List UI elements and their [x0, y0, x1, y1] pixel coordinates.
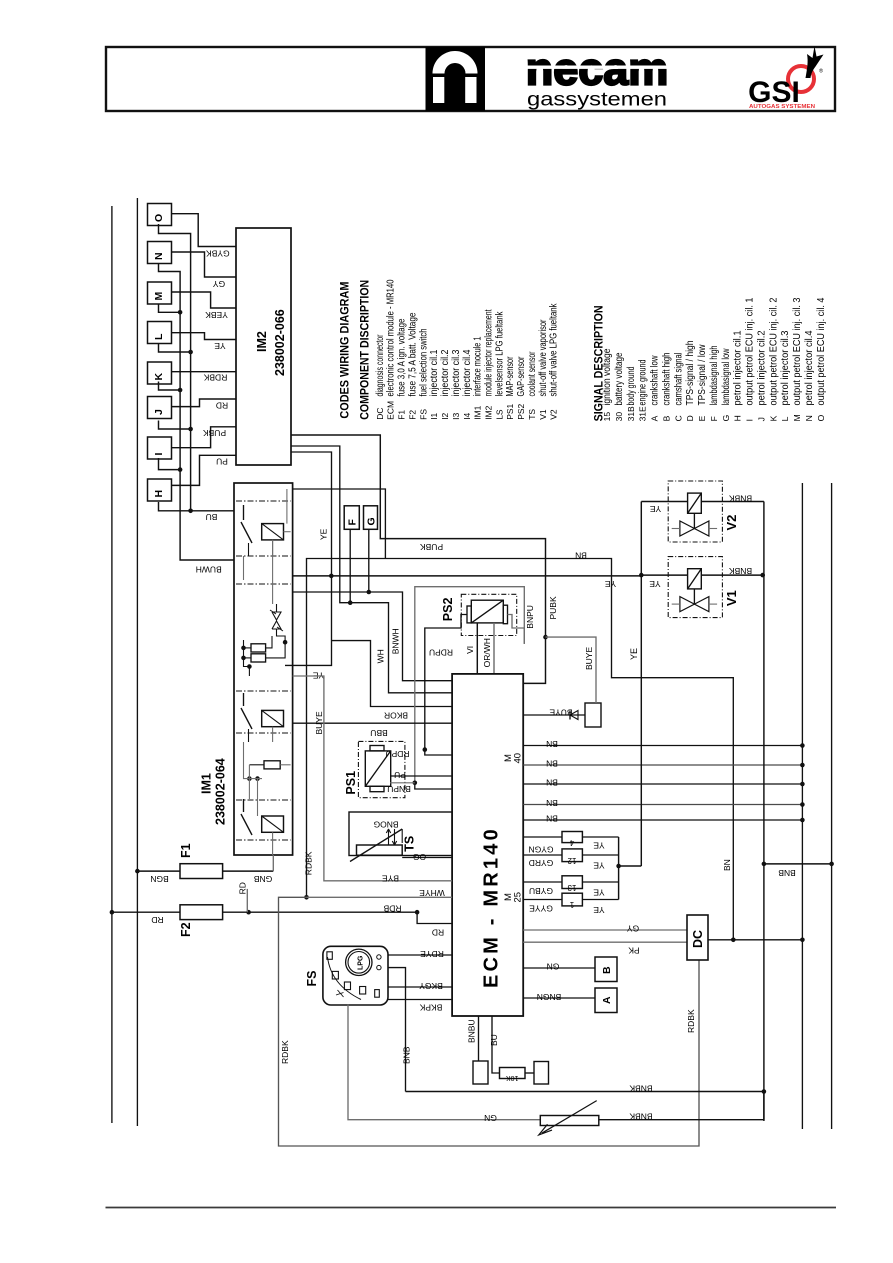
svg-text:GYRD: GYRD	[529, 858, 554, 868]
svg-text:BKGY: BKGY	[419, 981, 443, 991]
svg-text:12: 12	[567, 856, 576, 865]
node bus1-M	[159, 304, 181, 313]
svg-text:petrol injector cil.4: petrol injector cil.4	[804, 330, 815, 405]
svg-text:levelsensor LPG fueltank: levelsensor LPG fueltank	[494, 311, 505, 397]
svg-text:BN: BN	[546, 759, 558, 769]
node PUBK	[543, 635, 548, 640]
pin box 13	[562, 876, 582, 889]
wire YE horizontal	[293, 575, 642, 577]
FS pins	[377, 955, 381, 959]
wire M-IM2 YEBK	[172, 292, 237, 308]
wire PK to DC	[523, 941, 687, 943]
svg-text:fuse 7,5 A batt. Voltage: fuse 7,5 A batt. Voltage	[407, 312, 418, 396]
svg-text:lambdasignal high: lambdasignal high	[709, 346, 720, 406]
wire BBU	[293, 722, 453, 724]
svg-text:O: O	[153, 214, 165, 222]
svg-text:CODES WIRING DIAGRAM: CODES WIRING DIAGRAM	[338, 282, 352, 419]
svg-text:GYYE: GYYE	[529, 904, 553, 914]
svg-text:B: B	[601, 966, 613, 974]
IM1 node stem	[244, 640, 250, 676]
svg-text:YE: YE	[214, 341, 226, 351]
svg-text:coolant sensor: coolant sensor	[527, 351, 538, 396]
svg-text:MAP-sensor: MAP-sensor	[505, 356, 516, 396]
svg-text:15: 15	[602, 412, 612, 422]
bus 1	[159, 263, 235, 560]
connector N	[148, 242, 172, 264]
svg-text:M: M	[153, 292, 165, 301]
connector G	[364, 506, 378, 530]
svg-text:necam: necam	[526, 44, 669, 95]
bus 2	[159, 224, 235, 511]
svg-text:N: N	[153, 252, 165, 260]
wire YE main vertical	[640, 502, 642, 867]
svg-text:BN: BN	[575, 551, 587, 561]
svg-text:ECM - MR140: ECM - MR140	[481, 826, 503, 988]
svg-text:BU: BU	[489, 1034, 499, 1046]
svg-text:K: K	[768, 415, 778, 421]
svg-text:PK: PK	[628, 946, 640, 956]
wire YE to V2	[641, 501, 687, 503]
svg-text:GN: GN	[484, 1113, 497, 1123]
connector O	[148, 204, 172, 226]
svg-text:GY: GY	[627, 924, 640, 934]
box 10K right	[534, 1062, 549, 1085]
node bus1-K	[159, 382, 181, 391]
wire OR/WH	[493, 623, 495, 674]
svg-text:fuel selection switch: fuel selection switch	[418, 329, 429, 397]
wire O-IM2 GYBK	[172, 214, 237, 247]
svg-text:BGN: BGN	[150, 874, 168, 884]
svg-text:gassystemen: gassystemen	[527, 89, 667, 111]
wire H-IM2 PU	[172, 455, 237, 485]
valve V2 body	[680, 521, 695, 536]
svg-text:fuse 3,0 A ign. voltage: fuse 3,0 A ign. voltage	[397, 318, 408, 396]
wire K-IM2 RDBK	[172, 371, 237, 373]
svg-text:YE: YE	[605, 579, 617, 589]
wire BKOR	[332, 641, 453, 707]
svg-text:4: 4	[569, 838, 574, 847]
svg-text:G: G	[721, 415, 731, 422]
IM1 relay 2 switch	[243, 693, 245, 706]
connector L	[148, 322, 172, 344]
svg-text:RD: RD	[238, 882, 248, 894]
svg-text:body ground: body ground	[626, 367, 637, 406]
IM1 resistor r2	[251, 654, 266, 662]
svg-text:injector cil.4: injector cil.4	[462, 349, 473, 396]
svg-text:BN: BN	[546, 814, 558, 824]
svg-text:PUBK: PUBK	[203, 428, 226, 438]
right border line 1	[801, 483, 803, 1129]
wire BNBK vertical	[763, 502, 765, 1122]
wire YE to V1	[641, 574, 687, 576]
svg-text:LS: LS	[494, 409, 504, 420]
svg-text:BNWH: BNWH	[391, 628, 401, 654]
necam logo black square	[426, 47, 486, 111]
svg-text:BKPK: BKPK	[419, 1003, 442, 1013]
interface box K	[585, 703, 601, 727]
wire BKGY	[388, 986, 452, 988]
svg-text:battery voltage: battery voltage	[614, 352, 625, 405]
svg-text:BUYE: BUYE	[584, 647, 594, 670]
svg-text:K: K	[153, 373, 165, 381]
svg-text:ignition voltage: ignition voltage	[602, 348, 613, 405]
svg-text:10K: 10K	[506, 1074, 519, 1081]
svg-text:TPS-signal / high: TPS-signal / high	[685, 341, 696, 406]
pin box 12	[562, 849, 582, 862]
svg-text:L: L	[153, 333, 165, 340]
node bus2-L	[159, 344, 191, 352]
FS LPG dial	[346, 949, 372, 975]
wire RDBK to bottom	[279, 897, 700, 1146]
svg-text:BNB: BNB	[778, 868, 796, 878]
svg-text:TS: TS	[403, 836, 417, 852]
svg-text:BNBU: BNBU	[467, 1019, 477, 1043]
svg-text:YEBK: YEBK	[205, 310, 228, 320]
connector B	[595, 957, 617, 982]
svg-text:GN: GN	[547, 962, 560, 972]
svg-text:I2: I2	[440, 412, 450, 419]
svg-text:VI: VI	[465, 646, 475, 654]
svg-text:engine ground: engine ground	[638, 360, 649, 406]
svg-text:F: F	[347, 519, 359, 526]
connector K	[148, 362, 172, 384]
svg-text:PS1: PS1	[344, 771, 358, 795]
svg-text:interface mocule 1: interface mocule 1	[473, 336, 484, 396]
GSI logo arrow	[806, 46, 824, 78]
wire BNGN to A	[523, 997, 595, 999]
IM1 zener pair	[272, 612, 281, 620]
svg-text:COMPONENT DISCRIPTION: COMPONENT DISCRIPTION	[358, 280, 372, 420]
svg-text:BUWH: BUWH	[196, 565, 222, 575]
IM1 relay 1 coil	[262, 524, 284, 540]
switch FS	[323, 946, 388, 1005]
svg-text:crankshaft low: crankshaft low	[650, 355, 661, 406]
wire BNBK V1	[701, 574, 764, 576]
svg-text:WHYE: WHYE	[419, 888, 445, 898]
svg-text:YE: YE	[593, 888, 605, 898]
FS indicator leds	[327, 952, 332, 960]
necam logo white arch	[433, 51, 478, 74]
svg-text:RDB: RDB	[383, 904, 401, 914]
IM1 relay 3 switch	[243, 799, 245, 812]
svg-text:petrol injector cil.3: petrol injector cil.3	[780, 330, 791, 405]
svg-text:RDBK: RDBK	[304, 851, 314, 875]
wire GY to DC	[523, 929, 687, 931]
svg-text:I4: I4	[462, 412, 472, 419]
svg-text:DC: DC	[691, 930, 705, 948]
wire BNPU to ECM	[415, 783, 452, 789]
svg-text:D: D	[685, 415, 695, 421]
TS arrows	[386, 829, 390, 845]
valve V1 solenoid	[688, 569, 702, 589]
wire BNPU frame	[508, 615, 525, 644]
pin box 4	[562, 832, 582, 843]
svg-text:YE: YE	[593, 905, 605, 915]
wire FS-BNB	[388, 968, 406, 1092]
svg-text:BBU: BBU	[370, 728, 387, 738]
svg-text:BNOG: BNOG	[373, 820, 398, 830]
svg-text:injector cil.2: injector cil.2	[440, 349, 451, 396]
wire BNBK V2	[701, 501, 764, 503]
svg-text:BNBK: BNBK	[629, 1112, 652, 1122]
svg-text:BNPU: BNPU	[525, 605, 535, 629]
svg-text:G: G	[366, 517, 378, 525]
IM1 resistor r1	[251, 644, 266, 652]
svg-text:1: 1	[569, 900, 574, 909]
svg-text:ECM: ECM	[386, 401, 396, 420]
svg-text:J: J	[756, 417, 766, 421]
svg-text:IM2: IM2	[484, 405, 494, 419]
svg-text:®: ®	[819, 68, 823, 75]
wires BN x5	[523, 745, 802, 747]
svg-text:40: 40	[513, 753, 524, 764]
wire BNBK lower	[406, 1091, 764, 1093]
wire DC right	[708, 939, 802, 941]
svg-text:BN: BN	[722, 859, 732, 871]
wire WH from IM2	[291, 446, 452, 693]
connector J	[148, 397, 172, 419]
node bus2-H	[159, 502, 191, 511]
svg-text:V1: V1	[724, 590, 739, 606]
pin bus YE	[618, 837, 620, 900]
svg-text:LPG: LPG	[358, 955, 365, 970]
svg-text:RDPU: RDPU	[385, 749, 409, 759]
wire RDBK mid vertical	[306, 896, 308, 898]
wire BNB	[764, 863, 832, 865]
svg-text:25: 25	[513, 892, 524, 903]
svg-text:TPS-signal / low: TPS-signal / low	[697, 344, 708, 406]
wire BUYE-BYE	[293, 676, 453, 881]
svg-text:V1: V1	[538, 409, 548, 420]
wire PU	[391, 775, 452, 777]
svg-text:RDBK: RDBK	[686, 1009, 696, 1033]
sensor TS	[349, 812, 452, 856]
svg-text:PU: PU	[394, 770, 406, 780]
svg-text:PS2: PS2	[516, 403, 526, 419]
svg-text:output petrol ECU inj. cil. 1: output petrol ECU inj. cil. 1	[745, 297, 756, 405]
connector A	[595, 988, 617, 1013]
wire L-IM2 YE	[172, 333, 237, 340]
svg-text:238002-066: 238002-066	[273, 309, 287, 376]
svg-text:RD: RD	[216, 401, 228, 411]
connector M	[148, 282, 172, 304]
svg-text:GAP-sensor: GAP-sensor	[516, 356, 527, 396]
right border line 2	[831, 483, 833, 1129]
wire F down	[349, 529, 351, 602]
svg-text:GNB: GNB	[253, 874, 272, 884]
IM1 relay 1 switch	[243, 505, 245, 520]
valve V2 box	[668, 481, 722, 542]
pin box 1	[562, 893, 582, 906]
svg-text:F1: F1	[397, 410, 407, 420]
svg-text:I3: I3	[451, 412, 461, 419]
left border line 2	[136, 198, 138, 1126]
svg-text:YE: YE	[593, 841, 605, 851]
wire WHYE	[307, 896, 453, 898]
valve V2 solenoid	[688, 493, 702, 513]
svg-text:RDPU: RDPU	[429, 648, 453, 658]
wire GN to LS	[348, 1005, 540, 1120]
sensor PS1	[358, 741, 405, 797]
svg-text:F2: F2	[407, 410, 417, 420]
sensor PS2	[461, 594, 516, 635]
svg-text:BUYE: BUYE	[314, 711, 324, 734]
svg-text:camshaft signal: camshaft signal	[673, 353, 684, 406]
svg-text:FS: FS	[305, 971, 319, 987]
wire BN upper	[307, 559, 734, 940]
FS arc	[328, 957, 362, 1000]
wire BNBK from LS	[599, 1119, 764, 1121]
svg-text:L: L	[780, 416, 790, 421]
IM1 relay 1 wiring	[284, 531, 291, 533]
module ECM MR140	[452, 674, 523, 1016]
svg-text:RDBK: RDBK	[203, 372, 227, 382]
svg-text:GYBK: GYBK	[206, 249, 230, 259]
header frame	[106, 47, 835, 111]
wire BU	[492, 1016, 500, 1073]
node bus1-I	[159, 458, 181, 470]
svg-text:electronic control module - MR: electronic control module - MR140	[386, 279, 397, 396]
svg-text:YE: YE	[593, 861, 605, 871]
wire G down	[368, 529, 370, 592]
svg-text:YE: YE	[649, 579, 661, 589]
left border line 1	[111, 206, 113, 1123]
wire BUYE up	[546, 637, 597, 703]
svg-text:N: N	[804, 415, 814, 421]
svg-text:output petrol ECU inj. cil. 4: output petrol ECU inj. cil. 4	[816, 297, 827, 405]
svg-text:shut-off valve LPG fueltank: shut-off valve LPG fueltank	[549, 303, 560, 397]
svg-text:F2: F2	[179, 922, 193, 937]
svg-text:BN: BN	[546, 778, 558, 788]
svg-text:J: J	[153, 409, 165, 415]
svg-text:A: A	[601, 996, 613, 1004]
wire BNWH	[293, 592, 453, 681]
svg-text:I: I	[745, 419, 755, 421]
svg-text:IM1: IM1	[473, 405, 483, 419]
svg-text:PUBK: PUBK	[548, 596, 558, 619]
svg-text:RDBK: RDBK	[280, 1040, 290, 1064]
svg-text:V2: V2	[724, 515, 739, 531]
wire VI	[476, 623, 478, 674]
svg-text:C: C	[673, 415, 683, 421]
svg-text:YE: YE	[319, 528, 329, 540]
fuse F1	[180, 864, 223, 879]
svg-text:IM2: IM2	[255, 331, 269, 352]
resistor 10K	[500, 1068, 526, 1079]
svg-text:238002-064: 238002-064	[214, 758, 228, 825]
svg-text:injector cil.1: injector cil.1	[429, 349, 440, 396]
svg-text:diagnosis connector: diagnosis connector	[375, 334, 386, 396]
connector H	[148, 479, 172, 501]
IM1 relay 2 coil	[262, 710, 284, 726]
wire RDPU to ECM	[425, 750, 452, 755]
svg-text:I1: I1	[429, 412, 439, 419]
svg-text:O: O	[816, 414, 826, 421]
svg-text:H: H	[153, 490, 165, 498]
IM1 node r3	[247, 776, 252, 781]
svg-text:PS2: PS2	[441, 598, 455, 622]
svg-text:BNBK: BNBK	[729, 493, 752, 503]
svg-text:YE: YE	[650, 504, 662, 514]
svg-text:DC: DC	[375, 408, 385, 420]
svg-text:PS1: PS1	[505, 403, 515, 419]
footer rule	[106, 1207, 837, 1209]
wire BNBU	[478, 1016, 480, 1061]
svg-text:BN: BN	[546, 739, 558, 749]
svg-text:H: H	[733, 415, 743, 421]
node bus2-J	[159, 421, 191, 430]
wire BKPK	[388, 999, 452, 1001]
module IM1	[234, 483, 293, 855]
svg-text:OR/WH: OR/WH	[482, 638, 492, 667]
svg-text:output petrol ECU inj. cil. 3: output petrol ECU inj. cil. 3	[792, 297, 803, 405]
svg-text:30: 30	[614, 412, 624, 422]
levelsensor LS	[540, 1116, 599, 1126]
svg-text:RDYE: RDYE	[420, 949, 444, 959]
valve V1 box	[668, 557, 722, 618]
svg-text:BNB: BNB	[402, 1046, 412, 1064]
wire GNB through F1	[137, 870, 180, 872]
svg-text:BN: BN	[546, 798, 558, 808]
wire I-IM2 PUBK	[172, 427, 237, 448]
connector F	[344, 506, 359, 530]
svg-text:YE: YE	[629, 648, 639, 660]
fuse F2	[180, 905, 223, 920]
svg-text:crankshaft high: crankshaft high	[661, 353, 672, 406]
svg-text:E: E	[697, 415, 707, 421]
svg-text:31E: 31E	[638, 406, 648, 421]
svg-text:FS: FS	[418, 409, 428, 420]
svg-text:A: A	[650, 415, 660, 421]
svg-text:RD: RD	[151, 915, 163, 925]
wire RDPU	[425, 615, 467, 750]
wire IM1 top right stub	[293, 489, 386, 559]
svg-text:BU: BU	[206, 512, 218, 522]
TS thermistor	[357, 845, 403, 855]
svg-text:PUBK: PUBK	[420, 542, 443, 552]
svg-text:module injector replacement: module injector replacement	[484, 309, 495, 396]
wire RDYE	[388, 954, 452, 956]
svg-text:output petrol ECU inj. cil. 2: output petrol ECU inj. cil. 2	[768, 297, 779, 405]
svg-text:GYBU: GYBU	[529, 886, 553, 896]
IM1 divider dashed	[236, 500, 291, 502]
wire PUBK from IM2	[291, 435, 546, 637]
svg-text:F: F	[709, 416, 719, 421]
svg-text:GY: GY	[213, 279, 226, 289]
svg-text:BNBK: BNBK	[729, 566, 752, 576]
module IM2	[236, 228, 291, 465]
svg-text:V2: V2	[549, 409, 559, 420]
svg-text:shut-off valve vaporisor: shut-off valve vaporisor	[538, 319, 549, 396]
svg-text:RD: RD	[432, 928, 444, 938]
wire BUYE diode	[523, 714, 585, 716]
svg-text:TS: TS	[527, 409, 537, 420]
svg-text:WH: WH	[376, 649, 386, 663]
svg-text:lambdasignal low: lambdasignal low	[721, 348, 732, 406]
svg-text:GYGN: GYGN	[528, 845, 553, 855]
svg-text:IM1: IM1	[200, 773, 214, 794]
connector DC	[687, 915, 708, 960]
wire GN to B	[523, 967, 595, 969]
IM1 internal verticals	[272, 727, 274, 742]
connector I	[148, 437, 172, 459]
IM1 relay 3 coil	[262, 816, 284, 832]
wire N-IM2 GY	[172, 252, 237, 277]
wire YE from IM2 down	[285, 452, 332, 665]
svg-text:BYE: BYE	[382, 874, 399, 884]
svg-text:BNGN: BNGN	[537, 992, 562, 1002]
svg-text:BNPU: BNPU	[387, 784, 411, 794]
